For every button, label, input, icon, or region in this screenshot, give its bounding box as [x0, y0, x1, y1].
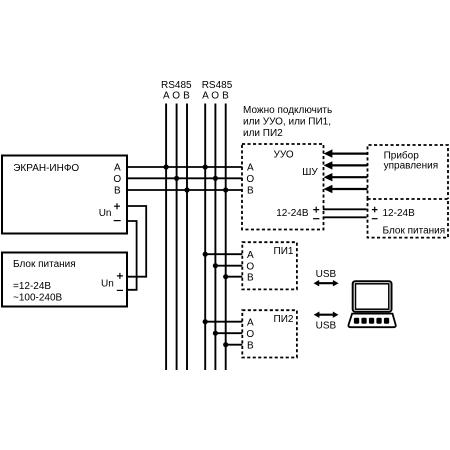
pin + label (УУО 12-24В): [313, 207, 319, 213]
wire ПИ2-B: [226, 344, 243, 346]
device УУО box (dashed): [242, 144, 324, 230]
svg-text:О: О: [172, 91, 180, 102]
svg-text:управления: управления: [384, 160, 439, 171]
power supply Блок питания box (right, dashed): [368, 199, 449, 238]
keyboard key 1: [354, 318, 359, 324]
device ПИ2 box (dashed): [242, 310, 297, 357]
svg-text:А: А: [247, 250, 254, 261]
bus 2 wire B (vertical): [225, 104, 227, 371]
bus 2 wire A (vertical): [204, 104, 206, 371]
svg-text:Блок питания: Блок питания: [383, 226, 446, 237]
svg-text:О: О: [246, 174, 254, 185]
arrow ШУ 3: [324, 173, 368, 181]
svg-text:RS485: RS485: [202, 80, 233, 91]
svg-text:А: А: [114, 163, 121, 174]
computer monitor (outer): [353, 281, 392, 312]
junction ПИ2-O-bus2: [213, 331, 218, 336]
device ЭКРАН-ИНФО box: [2, 156, 127, 234]
svg-text:USB: USB: [316, 320, 337, 331]
bus 1 wire A (vertical): [165, 104, 167, 371]
keyboard key 4: [376, 318, 381, 324]
junction B-bus1: [184, 187, 189, 192]
wire A (ЭКРАН-ИНФО to УУО): [127, 166, 242, 168]
pin + label (Блок питания): [117, 273, 123, 279]
arrow USB (ПИ1, double-headed): [314, 280, 339, 286]
svg-text:или УУО, или ПИ1,: или УУО, или ПИ1,: [243, 117, 331, 128]
keyboard key 3: [369, 318, 374, 324]
pin − label (УУО 12-24В): [313, 218, 319, 220]
junction O-bus1: [174, 176, 179, 181]
pin − label (Блок питания): [117, 289, 123, 291]
pin + label (ЭКРАН-ИНФО Un): [114, 203, 120, 209]
svg-text:Блок питания: Блок питания: [13, 259, 76, 270]
svg-text:А: А: [163, 91, 170, 102]
svg-text:В: В: [247, 186, 254, 197]
wire Un− (ЭКРАН-ИНФО to Блок питания): [127, 221, 137, 290]
svg-text:В: В: [247, 272, 254, 283]
wire ПИ1-B: [226, 276, 243, 278]
svg-text:ПИ2: ПИ2: [274, 314, 294, 325]
svg-text:USB: USB: [316, 269, 337, 280]
svg-text:ЭКРАН-ИНФО: ЭКРАН-ИНФО: [13, 163, 79, 174]
junction ПИ1-O-bus2: [213, 263, 218, 268]
svg-text:или ПИ2: или ПИ2: [243, 128, 283, 139]
svg-text:RS485: RS485: [161, 80, 192, 91]
wire ПИ2-A: [205, 321, 242, 323]
junction ПИ1-A-bus2: [203, 252, 208, 257]
svg-text:В: В: [247, 340, 254, 351]
bus 1 wire O (vertical): [176, 104, 178, 371]
pin − label (right Блок питания): [372, 218, 378, 220]
device ПИ1 box (dashed): [242, 242, 297, 289]
keyboard key 5: [384, 318, 389, 324]
pin − label (ЭКРАН-ИНФО Un): [114, 220, 121, 222]
svg-text:УУО: УУО: [274, 150, 294, 161]
junction B-bus2: [223, 187, 228, 192]
wire 12-24В −: [323, 216, 367, 218]
svg-text:В: В: [114, 186, 121, 197]
junction A-bus1: [164, 164, 169, 169]
svg-text:О: О: [246, 329, 254, 340]
pin + label (right Блок питания): [372, 207, 378, 213]
svg-text:Un: Un: [101, 278, 114, 289]
wire ПИ2-O: [215, 332, 242, 334]
arrow USB (ПИ2, double-headed): [314, 312, 339, 318]
device Прибор управления box (dashed): [368, 145, 449, 199]
computer keyboard base: [348, 314, 395, 328]
svg-text:О: О: [246, 261, 254, 272]
svg-text:А: А: [247, 163, 254, 174]
junction ПИ2-A-bus2: [203, 319, 208, 324]
bus 1 wire B (vertical): [186, 104, 188, 371]
arrow ШУ 1: [324, 149, 368, 157]
svg-text:А: А: [247, 317, 254, 328]
arrow ШУ 4: [324, 185, 368, 193]
svg-text:12-24В: 12-24В: [276, 208, 309, 219]
svg-text:~100-240В: ~100-240В: [13, 293, 63, 304]
arrow ШУ 2: [324, 161, 368, 169]
svg-text:=12-24В: =12-24В: [13, 281, 51, 292]
junction O-bus2: [213, 176, 218, 181]
junction A-bus2: [203, 164, 208, 169]
bus 2 wire O (vertical): [214, 104, 216, 371]
svg-text:О: О: [211, 91, 219, 102]
svg-text:ПИ1: ПИ1: [274, 246, 294, 257]
power supply Блок питания box (left): [2, 253, 127, 307]
wire B (ЭКРАН-ИНФО to УУО): [127, 189, 242, 191]
wire Un+ (ЭКРАН-ИНФО to Блок питания): [127, 206, 146, 277]
svg-text:В: В: [222, 91, 229, 102]
computer monitor screen (inner): [356, 284, 389, 309]
svg-text:О: О: [113, 174, 121, 185]
keyboard key 2: [361, 318, 366, 324]
svg-text:Un: Un: [99, 208, 112, 219]
svg-text:12-24В: 12-24В: [383, 208, 416, 219]
svg-text:Можно подключить: Можно подключить: [243, 105, 332, 116]
svg-text:А: А: [202, 91, 209, 102]
wire O (ЭКРАН-ИНФО to УУО): [127, 177, 242, 179]
junction ПИ1-B-bus2: [223, 274, 228, 279]
svg-text:ШУ: ШУ: [302, 167, 318, 178]
wire ПИ1-O: [215, 265, 242, 267]
junction ПИ2-B-bus2: [223, 342, 228, 347]
wire ПИ1-A: [205, 253, 242, 255]
svg-text:В: В: [183, 91, 190, 102]
wire 12-24В +: [323, 208, 367, 210]
